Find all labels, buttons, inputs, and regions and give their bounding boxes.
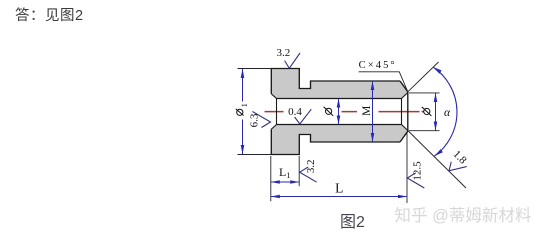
svg-text:3.2: 3.2 xyxy=(277,47,291,59)
dimension L1 xyxy=(271,181,299,183)
dimension L xyxy=(271,196,407,198)
bore chamfer edge line right xyxy=(277,99,402,125)
svg-text:L1: L1 xyxy=(279,165,291,180)
svg-text:M: M xyxy=(361,106,373,116)
label phi1 xyxy=(236,103,249,115)
svg-text:L: L xyxy=(335,181,343,196)
angle line lower xyxy=(408,131,466,189)
chamfer leader xyxy=(359,72,408,92)
arrow arc top xyxy=(433,67,442,74)
svg-text:3.2: 3.2 xyxy=(305,160,317,174)
dimension M xyxy=(372,81,374,142)
watermark xyxy=(395,202,532,226)
roughness 3.2 on flange top xyxy=(285,53,300,68)
svg-text:1.8: 1.8 xyxy=(451,148,470,167)
extension lines phi1 xyxy=(238,69,272,155)
svg-text:6.3: 6.3 xyxy=(248,113,260,127)
outline right chamfer and face xyxy=(400,81,408,142)
roughness 0.4 in bore xyxy=(295,109,312,124)
dimension phi right xyxy=(409,93,440,131)
extension line right face bottom xyxy=(406,133,408,204)
arrow arc bottom xyxy=(435,149,443,156)
arrow phi1 bottom xyxy=(241,145,245,155)
dimension phi bore xyxy=(338,99,340,125)
svg-text:α: α xyxy=(444,107,451,119)
answer text 答：见图2 xyxy=(15,4,84,25)
label phi right xyxy=(422,107,432,116)
label phi bore xyxy=(324,107,334,116)
roughness 1.8 on lower angle line xyxy=(446,156,467,177)
roughness 3.2 on groove extension xyxy=(300,167,317,182)
dimension phi1 line xyxy=(242,69,244,155)
outline flange xyxy=(271,69,400,155)
svg-text:0.4: 0.4 xyxy=(288,106,302,118)
part section gray fill xyxy=(271,69,408,155)
arrow phi1 top xyxy=(241,69,245,79)
extension line left bottom xyxy=(270,156,272,201)
bore slot white fill xyxy=(271,93,408,131)
svg-text:12.5: 12.5 xyxy=(411,161,423,181)
angle line upper xyxy=(408,62,439,92)
svg-text:1: 1 xyxy=(240,103,249,107)
svg-text:C×45°: C×45° xyxy=(359,60,397,71)
angle arc xyxy=(433,67,457,156)
bore lines xyxy=(277,99,402,125)
roughness 6.3 on left face xyxy=(253,112,271,128)
roughness 12.5 on right extension xyxy=(407,173,424,188)
centerline (red) xyxy=(265,111,424,113)
caption 图2 xyxy=(340,208,365,232)
bore entrance chamfers xyxy=(271,93,408,131)
extension line flange right bottom xyxy=(298,156,300,186)
